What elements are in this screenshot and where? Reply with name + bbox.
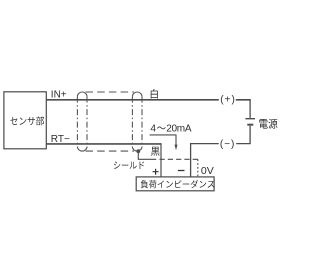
wire: IN+ white wire from sensor to power supply (+) [46,99,250,101]
wire: RT- black wire from sensor to load [46,143,161,145]
callout line for 4~20mA with arrow [150,135,176,145]
sensor box センサ部 [4,92,46,149]
wire: shield drain (solid part) [138,151,156,159]
svg-text:4: 4 [150,124,156,135]
wire: 0V reference dotted vertical [197,159,199,177]
wire: 0V reference dashed horizontal [160,158,199,160]
shielded cable: right end cap [132,92,142,151]
label 黒 (black lead) [151,147,160,156]
shielded cable: shield outline top (dashed) [86,91,135,93]
battery BT1: power supply cell short plate [247,124,253,126]
label 電源 (power supply) [259,119,277,129]
battery BT1: power supply cell long plate [245,118,255,120]
svg-text:(−): (−) [220,139,236,150]
load impedance box [136,177,214,191]
label シールド (shield) [114,162,144,170]
shielded cable: left end cap [77,92,87,151]
label 負荷インピーダンス (load impedance) [141,180,215,188]
label センサ部 (sensor section) [10,116,44,125]
node (-) label on negative wire [219,139,237,149]
wire: power supply negative wire to load [191,126,251,177]
svg-text:0V: 0V [201,165,214,177]
svg-text:(+): (+) [220,94,236,105]
plus terminal mark of load [153,169,159,175]
minus terminal mark of load [178,170,185,172]
svg-text:RT−: RT− [51,134,70,145]
node: shield drain junction dot [136,149,140,153]
svg-text:IN+: IN+ [51,90,67,101]
label 白 (white lead) [151,89,158,99]
node (+) label on positive wire [219,95,236,105]
wire: battery positive lead (vertical) [249,100,251,118]
svg-text:20mA: 20mA [166,124,192,135]
wire: load plus lead (vertical to load box) [160,143,162,177]
shielded cable: shield outline bottom (dashed) [86,150,135,152]
